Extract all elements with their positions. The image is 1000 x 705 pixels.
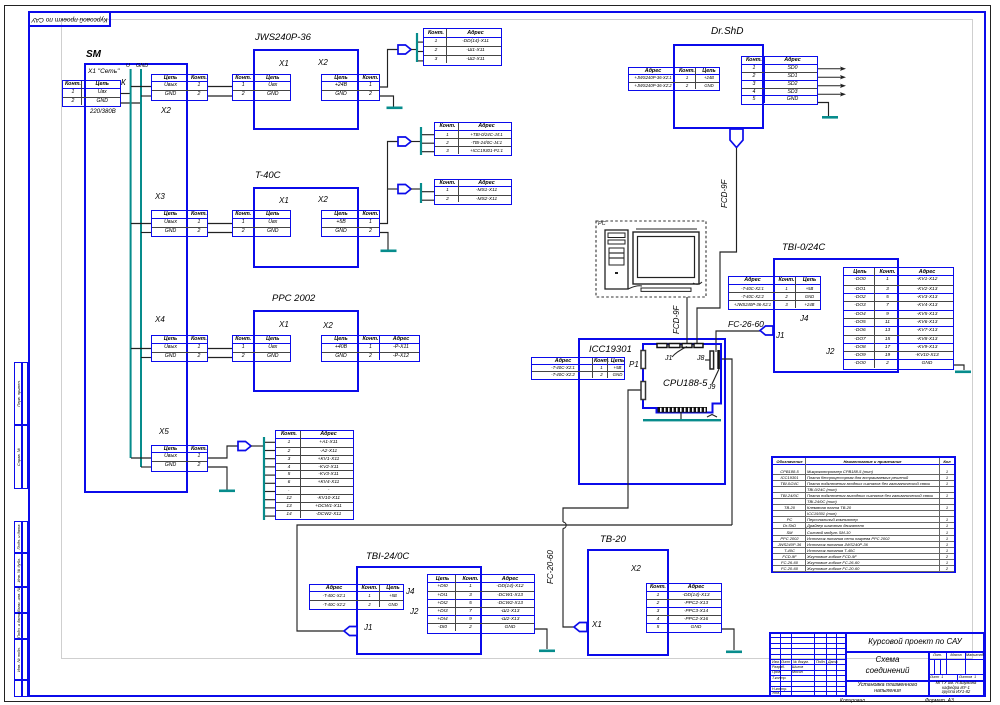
- cable connector pentagon J1 of TBI-24/0C: [344, 627, 357, 636]
- label J4 of TBI-0/24C: [800, 314, 808, 323]
- label X5 of SM: [159, 427, 169, 436]
- wire TBI-24/0C GND to ground: [535, 629, 547, 649]
- label J1 of TBI-0/24C: [776, 331, 784, 340]
- stub wires to MS address table: [422, 191, 434, 193]
- PC monitor: [633, 232, 699, 284]
- ground of SM X5: [219, 490, 235, 493]
- power supply block JWS240P-36: [253, 49, 359, 130]
- output board block TBI-24/0C: [356, 566, 482, 655]
- power module block SM: [84, 63, 188, 493]
- output table of Dr.ShD: [741, 56, 818, 105]
- label X2 of T-40C: [318, 195, 328, 204]
- wire branch to MS pentagon: [388, 188, 399, 190]
- connector table X5 of SM: [151, 445, 208, 472]
- frame margin cell Перв. примен.: [14, 362, 28, 425]
- wire cable FCD-9F from Dr.ShD to CPU J1: [697, 148, 737, 343]
- output table J2 of TBI-24/0C: [427, 574, 535, 634]
- wire SM X3 to T-40C X1 row1: [208, 223, 232, 225]
- label X1 of JWS240P-36: [279, 59, 289, 68]
- teal bus bar at T-40C J4 table: [420, 127, 422, 155]
- label X4 of SM: [155, 315, 165, 324]
- label X1 of PPC 2002: [279, 320, 289, 329]
- teal bus bar at X5 address table: [263, 437, 265, 520]
- ground of JWS240P-36: [387, 107, 403, 110]
- bus GND (teal vertical): [140, 69, 142, 467]
- cable connector pentagon X1 of TB-20: [574, 623, 587, 632]
- label CPU188-5: [663, 378, 707, 389]
- CPU left slot 1: [641, 351, 646, 369]
- label J4 of TBI-24/0C: [406, 587, 414, 596]
- wire cable FC-20-60 from CPU P1 to TB-20 X1: [563, 390, 641, 522]
- title block frame: [769, 632, 985, 697]
- connector table X4 of SM: [151, 335, 208, 362]
- long wire to TBI-24/0C J1: [297, 525, 732, 631]
- PC mouse cable: [628, 282, 702, 289]
- stub wires bus bar to X5 address table: [265, 441, 275, 443]
- leader line J1: [672, 347, 687, 358]
- wire GND bus to SM X5 row2: [141, 466, 151, 468]
- CPU connector J8: [710, 351, 714, 369]
- label TB-20: [600, 534, 626, 545]
- wire U bus to SM X3 row1: [131, 223, 151, 225]
- power supply block PPC 2002: [253, 310, 359, 392]
- wire TB-20 GND to ground: [722, 629, 734, 650]
- ground of T-40C: [381, 250, 397, 253]
- frame margin cell Инв. № дубл.: [14, 553, 28, 587]
- wire SM X5 row1 to pentagon: [208, 446, 238, 458]
- connector table X3 of SM: [151, 210, 208, 237]
- wire GND bus to SM X3 row2: [141, 232, 151, 234]
- component list table: [771, 456, 956, 573]
- connector table X2 of JWS240P-36: [321, 74, 380, 101]
- label ICC19301: [589, 344, 632, 355]
- ground of Dr.ShD: [822, 116, 838, 119]
- input table P1 of ICC19301: [531, 357, 625, 380]
- label TBI-0/24C: [782, 242, 825, 253]
- power supply block T-40C: [253, 187, 359, 268]
- leader line J8: [705, 359, 710, 361]
- cable connector pentagon at JWS240P-36: [398, 45, 411, 54]
- cable connector pentagon at SM X5: [238, 442, 251, 451]
- label J9 of CPU: [708, 384, 715, 391]
- PC dashed enclosure: [596, 221, 706, 297]
- label X2 of JWS240P-36: [318, 58, 328, 67]
- address table of JWS240P-36 output: [423, 28, 502, 66]
- connector table X1 of T-40C: [232, 210, 291, 237]
- label FCD-9F cable 1 (rotated): [720, 156, 729, 208]
- label X1 of T-40C: [279, 196, 289, 205]
- address table of SM X5 output: [275, 430, 354, 520]
- teal bus bar at MS address table: [420, 183, 422, 203]
- wire SM X1 row1 to U bus: [121, 93, 132, 95]
- cable connector pentagon J1 of TBI-0/24C: [760, 326, 773, 335]
- CPU188-5 card outline: [643, 344, 721, 413]
- output table J2 of TBI-0/24C: [843, 267, 954, 370]
- connector table X1 of SM: [62, 80, 121, 107]
- wire U bus to SM X2 row1: [131, 86, 151, 88]
- wire cable FC-26-60 from CPU J8 to TBI-0/24C J1: [716, 331, 760, 352]
- CPU top connectors J1: [657, 344, 667, 348]
- teal bus bar at JWS address table: [416, 33, 418, 62]
- wire pentagon X5 to bus bar: [251, 445, 263, 447]
- label J2 of TBI-24/0C: [410, 607, 418, 616]
- wire TBI-0/24C GND to ground: [954, 365, 964, 370]
- label J2 of TBI-0/24C: [826, 347, 834, 356]
- label Формат А3: [925, 698, 954, 704]
- top-left stamp box with rotated title: [28, 11, 111, 27]
- mark near teal line: [707, 415, 717, 418]
- frame margin cell Подп. и дата: [14, 521, 28, 553]
- label 220/380В: [90, 109, 116, 115]
- wire SM X4 to PPC X1 row2: [208, 357, 232, 359]
- connector table X2 of SM: [151, 74, 208, 101]
- input table J4 of TBI-24/0C: [309, 584, 404, 610]
- ground of TB-20: [726, 651, 742, 654]
- CPU connector J9: [717, 350, 720, 369]
- stub wires to JWS address table: [418, 41, 423, 43]
- label Копировал: [840, 698, 865, 704]
- label SM: [86, 49, 101, 60]
- label PPC 2002: [272, 293, 315, 304]
- frame margin cell Взам. инв. №: [14, 587, 28, 613]
- address table of T-40C output MS: [434, 179, 512, 205]
- wire U bus to SM X4 row1: [131, 348, 151, 350]
- ground of TBI-24/0C: [539, 650, 555, 653]
- label X1 Сеть: [88, 68, 119, 75]
- label P1 of ICC19301: [629, 360, 639, 369]
- connector table X1 of JWS240P-36: [232, 74, 291, 101]
- CPU bottom edge connector: [658, 407, 708, 413]
- wire SM X1 row2 to GND bus: [121, 102, 142, 104]
- address table of T-40C output J4: [434, 122, 512, 156]
- bus U (teal vertical): [130, 69, 132, 458]
- frame margin cell Инв. № подл.: [14, 639, 28, 680]
- wire T-40C X2 row2 to ground: [380, 233, 388, 250]
- ground of TBI-0/24C: [955, 371, 971, 374]
- wire SM X5 row2 to ground: [208, 467, 227, 490]
- wire pentagon to teal bar JWS: [411, 49, 416, 51]
- wire JWS X2 row2 to ground: [380, 96, 394, 107]
- input table of Dr.ShD: [628, 67, 720, 91]
- label FC-26-60: [728, 319, 764, 329]
- cable connector pentagon T-40C MS: [398, 185, 411, 194]
- connector table X1 of PPC 2002: [232, 335, 291, 362]
- stub wires to J4 address table: [422, 134, 434, 136]
- PC keyboard: [641, 288, 691, 291]
- wire cable FCD-9F from PC to CPU: [686, 297, 688, 343]
- connector table X2 of PPC 2002 with address: [321, 335, 420, 362]
- label X1 of TB-20: [592, 620, 602, 629]
- label FC-20-60 cable (rotated): [546, 526, 555, 584]
- cable connector pentagon T-40C J4: [398, 137, 411, 146]
- label X2 of SM: [161, 106, 171, 115]
- label X2 of TB-20: [631, 564, 641, 573]
- cable connector pentagon of Dr.ShD (down): [730, 129, 743, 148]
- frame margin cell spare: [14, 680, 28, 697]
- terminal table X2 of TB-20: [646, 583, 722, 633]
- wire SM X2 to JWS X1 row1: [208, 86, 232, 88]
- wire JWS X2 row1 to pentagon: [380, 50, 398, 88]
- frame margin cell Справ. №: [14, 425, 28, 489]
- wire pentagon to teal bar T-40C MS: [411, 188, 420, 190]
- output arrows of Dr.ShD SD0: [818, 68, 842, 70]
- PC tower: [605, 230, 628, 289]
- output arrow SD2: [818, 85, 842, 87]
- label Dr.ShD: [711, 26, 743, 37]
- wire pentagon to teal bar T-40C J4: [411, 141, 420, 143]
- label J8 of CPU: [697, 355, 704, 362]
- connector table X2 of T-40C: [321, 210, 380, 237]
- label X3 of SM: [155, 192, 165, 201]
- label TBI-24/0C: [366, 551, 409, 562]
- label GND bus: [136, 63, 148, 69]
- frame margin cell Подп. и дата: [14, 613, 28, 639]
- output arrow SD1: [818, 76, 842, 78]
- label U bus: [126, 63, 130, 69]
- wire SM X4 to PPC X1 row1: [208, 348, 232, 350]
- label PC: [598, 221, 606, 227]
- label JWS240P-36: [255, 32, 311, 43]
- label J1 of TBI-24/0C: [364, 623, 372, 632]
- tick from connector to teal line: [680, 413, 682, 420]
- wire from CPU J9 down to junction: [722, 359, 732, 525]
- CPU left slot 2: [641, 382, 646, 400]
- wire T-40C X2 row1 to pentagons: [380, 142, 398, 224]
- label J1 of CPU: [665, 355, 672, 362]
- input board block TBI-0/24C: [773, 258, 899, 373]
- leader line J9: [712, 369, 719, 384]
- wire SM X2 to JWS X1 row2: [208, 95, 232, 97]
- terminal board block TB-20: [587, 549, 669, 656]
- wire U bus to SM X5 row1: [131, 457, 151, 459]
- controller block ICC19301: [578, 338, 726, 485]
- output arrow SD3: [818, 93, 842, 95]
- wire GND bus to SM X4 row2: [141, 357, 151, 359]
- stepper driver block Dr.ShD: [673, 44, 764, 129]
- wire GND bus to SM X2 row2: [141, 95, 151, 97]
- label К: [121, 78, 126, 87]
- teal line under CPU card: [643, 419, 721, 421]
- wire SM X3 to T-40C X1 row2: [208, 232, 232, 234]
- wire Dr.ShD GND row to ground: [818, 103, 829, 117]
- input table J4 of TBI-0/24C: [728, 276, 821, 310]
- label FCD-9F cable 2 (rotated): [672, 282, 681, 334]
- label X2 of PPC 2002: [323, 321, 333, 330]
- label T-40C: [255, 170, 281, 181]
